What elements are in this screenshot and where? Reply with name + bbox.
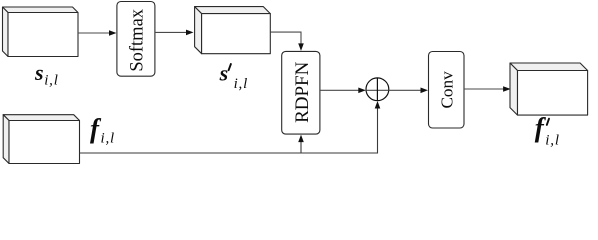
wire branch up to RDPFN xyxy=(300,140,302,153)
block Softmax xyxy=(117,2,155,77)
box F2: output cuboid f'_il xyxy=(510,63,588,115)
svg-text:i,l: i,l xyxy=(101,130,116,146)
box S1: feature cuboid s_il xyxy=(3,7,79,57)
label s_il xyxy=(34,60,59,89)
box S2: feature cuboid s'_il xyxy=(195,7,271,54)
svg-text:Conv: Conv xyxy=(438,71,457,109)
wire f_il bottom bus xyxy=(80,105,378,154)
svg-text:RDPFN: RDPFN xyxy=(292,61,313,123)
svg-text:s: s xyxy=(34,60,44,85)
arrow s_il to Softmax xyxy=(78,30,117,36)
arrow branch into RDPFN bottom xyxy=(298,135,304,143)
arrow Conv to f'_il xyxy=(464,86,511,92)
svg-text:i,l: i,l xyxy=(545,133,560,149)
block RDPFN xyxy=(282,51,320,134)
label f_il xyxy=(90,114,115,147)
label s'_il xyxy=(219,60,249,92)
svg-text:s: s xyxy=(219,60,229,85)
label f'_il xyxy=(535,112,560,148)
arrow adder to Conv xyxy=(389,88,428,94)
adder node (circled plus) xyxy=(366,78,389,101)
svg-text:i,l: i,l xyxy=(44,73,59,89)
block Conv xyxy=(429,52,465,129)
svg-text:i,l: i,l xyxy=(234,76,249,92)
svg-text:Softmax: Softmax xyxy=(127,8,147,71)
arrow bus up into adder xyxy=(375,101,381,109)
wire s'_il to RDPFN (right then down) xyxy=(270,32,304,51)
box F1: feature cuboid f_il xyxy=(3,115,79,164)
arrow Softmax to s'_il xyxy=(155,30,194,36)
arrow RDPFN to adder xyxy=(320,88,366,94)
